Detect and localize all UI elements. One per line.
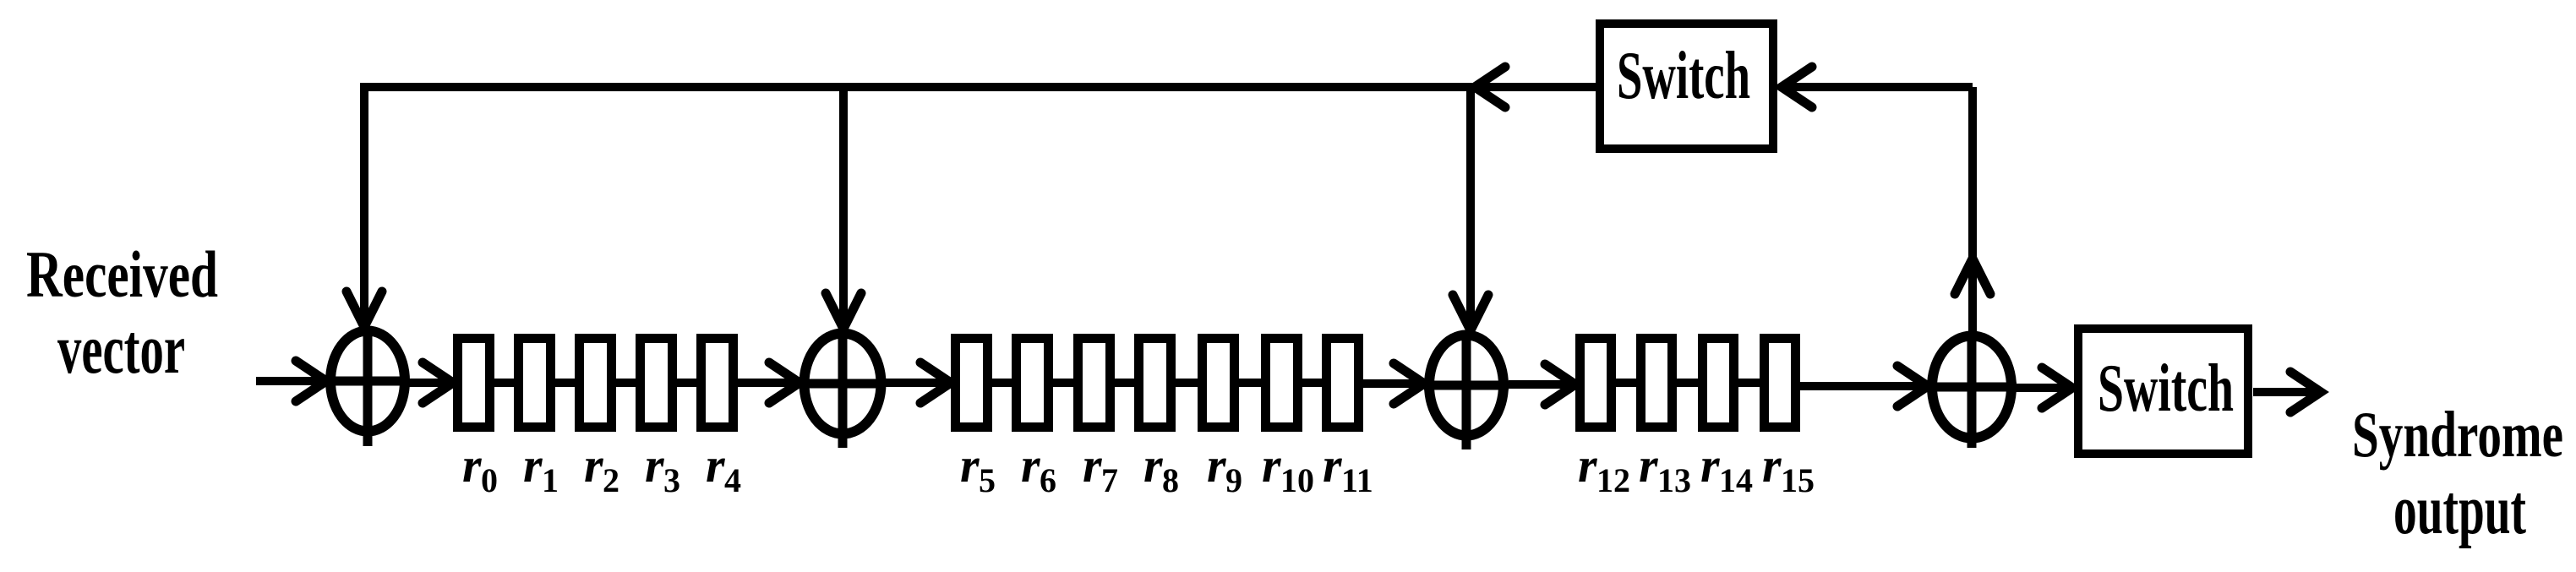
svg-text:r: r: [1639, 438, 1658, 493]
label: r3: [645, 438, 680, 499]
label: r10: [1262, 438, 1314, 499]
wire: r14-r15: [1738, 379, 1760, 387]
svg-text:Received: Received: [26, 237, 218, 311]
svg-text:15: 15: [1781, 461, 1815, 499]
svg-text:4: 4: [724, 461, 741, 499]
label: r9: [1207, 438, 1242, 499]
wire: riser from adder A4 up to top: [1968, 87, 1977, 331]
arrowhead: feedback into adder A3: [1453, 295, 1488, 330]
wire: syndrome output: [2253, 388, 2317, 396]
register r6: [1017, 339, 1049, 428]
register r10: [1266, 339, 1298, 428]
wire: register r4 to adder A2: [738, 379, 798, 387]
wire: switch SW1 output to feedback node: [1476, 83, 1596, 91]
svg-text:14: 14: [1719, 461, 1753, 499]
svg-text:2: 2: [603, 461, 619, 499]
wire: received vector input: [256, 377, 325, 385]
label: r6: [1021, 438, 1056, 499]
label: Received vector: [26, 237, 218, 389]
label: r12: [1578, 438, 1630, 499]
svg-text:8: 8: [1162, 461, 1179, 499]
arrowhead: into adder A4: [1897, 366, 1928, 406]
svg-text:r: r: [1762, 438, 1782, 493]
svg-text:10: 10: [1280, 461, 1314, 499]
wire: r1-r2: [555, 379, 575, 387]
wire: r0-r1: [494, 379, 514, 387]
register r14: [1703, 339, 1734, 428]
register r5: [956, 339, 988, 428]
wire: r7-r8: [1115, 379, 1134, 387]
register r13: [1641, 339, 1673, 428]
wire: r6-r7: [1053, 379, 1073, 387]
wire: adder A4 to switch SW2: [2016, 384, 2071, 392]
register r15: [1765, 339, 1796, 428]
arrowhead: into adder A2: [769, 362, 800, 403]
svg-text:r: r: [462, 438, 482, 493]
label: r5: [960, 438, 996, 499]
register r9: [1203, 339, 1235, 428]
label: r2: [584, 438, 619, 499]
label: r15: [1762, 438, 1815, 499]
register r8: [1139, 339, 1171, 428]
wire: r9-r10: [1239, 379, 1261, 387]
svg-text:Switch: Switch: [2098, 351, 2234, 426]
arrowhead: into register r12: [1545, 364, 1575, 405]
svg-text:r: r: [1262, 438, 1281, 493]
svg-text:r: r: [1700, 438, 1720, 493]
wire: feedback drop to adder A2: [839, 87, 848, 330]
arrowhead: into register r0: [423, 362, 453, 403]
wire: feedback bus (top horizontal + drop to adder A1): [364, 87, 1472, 327]
svg-text:13: 13: [1657, 461, 1691, 499]
label: r13: [1639, 438, 1691, 499]
label: r7: [1083, 438, 1118, 499]
wire: r5-r6: [992, 379, 1012, 387]
XOR adder A3: [1424, 330, 1509, 449]
label: Syndrome output: [2352, 398, 2563, 549]
svg-text:r: r: [523, 438, 543, 493]
XOR adder A2: [800, 329, 886, 448]
wire: r10-r11: [1302, 379, 1322, 387]
register r3: [641, 339, 673, 428]
arrowhead: feedback into adder A1: [347, 291, 382, 327]
register r4: [701, 339, 734, 428]
arrowhead: into switch SW1: [1782, 67, 1812, 107]
label: r11: [1323, 438, 1373, 499]
label: r0: [462, 438, 498, 499]
register r11: [1327, 339, 1359, 428]
svg-text:6: 6: [1040, 461, 1056, 499]
svg-text:12: 12: [1596, 461, 1630, 499]
svg-text:r: r: [1083, 438, 1102, 493]
svg-text:r: r: [1207, 438, 1226, 493]
label: r4: [706, 438, 741, 499]
arrowhead: into feedback node: [1475, 67, 1505, 107]
svg-text:r: r: [960, 438, 980, 493]
svg-text:r: r: [1323, 438, 1342, 493]
svg-text:r: r: [584, 438, 603, 493]
wire: feedback drop to adder A3: [1466, 87, 1475, 331]
arrowhead: feedback into adder A2: [826, 293, 861, 329]
wire: r13-r14: [1677, 379, 1698, 387]
register r2: [580, 339, 612, 428]
svg-text:3: 3: [663, 461, 680, 499]
arrowhead: input into adder A1: [296, 361, 326, 401]
register r7: [1078, 339, 1111, 428]
svg-text:r: r: [706, 438, 725, 493]
svg-text:r: r: [1143, 438, 1163, 493]
arrowhead: into register r5: [920, 362, 951, 403]
wire: r12-r13: [1616, 379, 1636, 387]
svg-text:1: 1: [542, 461, 559, 499]
label: r8: [1143, 438, 1179, 499]
svg-text:9: 9: [1225, 461, 1242, 499]
label: r14: [1700, 438, 1753, 499]
svg-text:7: 7: [1101, 461, 1118, 499]
wire: r3-r4: [677, 379, 696, 387]
svg-text:r: r: [1021, 438, 1040, 493]
svg-text:vector: vector: [57, 310, 185, 389]
wire: r8-r9: [1176, 379, 1198, 387]
arrowhead: syndrome output: [2290, 372, 2321, 412]
register r1: [519, 339, 551, 428]
svg-text:Switch: Switch: [1617, 39, 1750, 113]
wire: register r11 to adder A3: [1363, 379, 1422, 388]
register r0: [458, 339, 490, 428]
wire: adder A3 to register r12: [1509, 380, 1574, 389]
wire: adder A2 to register r5: [886, 379, 949, 387]
label: r1: [523, 438, 559, 499]
arrowhead: into adder A3: [1394, 363, 1424, 404]
XOR adder A4: [1928, 331, 2017, 448]
XOR adder A1: [326, 328, 409, 446]
svg-text:output: output: [2393, 471, 2526, 549]
svg-text:5: 5: [979, 461, 996, 499]
svg-text:11: 11: [1341, 461, 1373, 499]
svg-text:r: r: [645, 438, 664, 493]
svg-text:r: r: [1578, 438, 1597, 493]
wire: r2-r3: [616, 379, 636, 387]
wire: riser to switch SW1 input: [1783, 83, 1973, 91]
register r12: [1580, 339, 1612, 428]
arrowhead: upward on riser: [1955, 259, 1990, 294]
svg-text:0: 0: [481, 461, 498, 499]
switch SW1 (top): [1600, 24, 1773, 149]
switch SW2 (output): [2078, 329, 2248, 454]
svg-text:Syndrome: Syndrome: [2352, 398, 2563, 471]
wire: adder A1 to register r0: [409, 379, 451, 387]
arrowhead: into switch SW2: [2042, 368, 2072, 408]
wire: register r15 to adder A4: [1800, 382, 1926, 390]
